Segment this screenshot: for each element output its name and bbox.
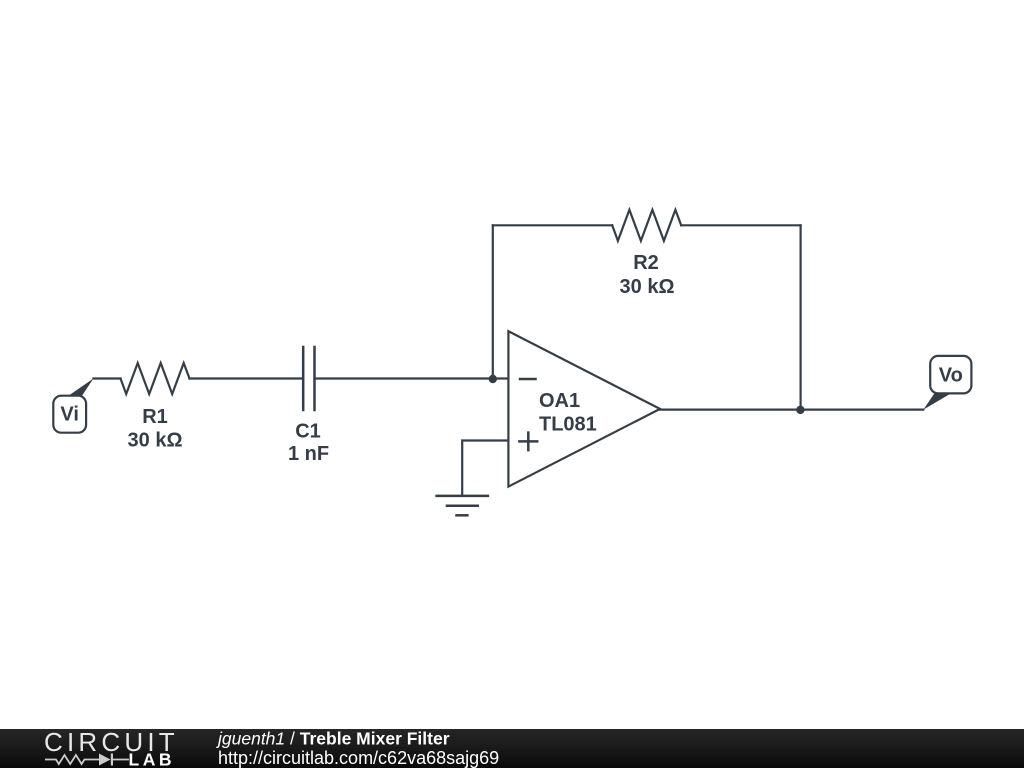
svg-text:TL081: TL081 bbox=[539, 413, 597, 435]
wire R1 to C1 bbox=[190, 377, 304, 379]
svg-text:1 nF: 1 nF bbox=[288, 443, 329, 465]
svg-text:LAB: LAB bbox=[129, 750, 175, 768]
op-amp plus sign bbox=[519, 433, 537, 451]
logo diode bbox=[99, 754, 111, 766]
svg-text:OA1: OA1 bbox=[539, 390, 580, 412]
wire non-inverting input bbox=[462, 441, 508, 496]
svg-text:R2: R2 bbox=[633, 252, 659, 274]
junction dot at inverting input bbox=[489, 375, 497, 383]
svg-text:R1: R1 bbox=[142, 406, 168, 428]
resistor R2 bbox=[612, 210, 681, 241]
label R2 value bbox=[620, 252, 675, 298]
wire feedback top right bbox=[681, 224, 800, 226]
wire input Vi to R1 bbox=[93, 377, 120, 379]
op-amp minus sign bbox=[520, 378, 536, 381]
svg-text:Vo: Vo bbox=[939, 365, 963, 387]
label C1 value bbox=[288, 420, 329, 465]
label R1 value bbox=[128, 406, 183, 452]
wire feedback vertical left bbox=[492, 225, 494, 378]
svg-text:30 kΩ: 30 kΩ bbox=[128, 429, 183, 451]
node Vo flag bbox=[923, 393, 951, 409]
ground bbox=[437, 496, 488, 515]
svg-text:http://circuitlab.com/c62va68s: http://circuitlab.com/c62va68sajg69 bbox=[218, 748, 499, 768]
node Vi flag bbox=[67, 379, 93, 397]
node Vi box bbox=[53, 396, 86, 433]
node Vo box bbox=[930, 356, 971, 394]
wire feedback vertical right bbox=[799, 225, 801, 409]
wire feedback top left bbox=[493, 224, 612, 226]
svg-text:jguenth1 / Treble Mixer Filter: jguenth1 / Treble Mixer Filter bbox=[216, 729, 450, 749]
capacitor C1 bbox=[303, 347, 314, 410]
resistor R1 bbox=[121, 363, 190, 394]
svg-text:30 kΩ: 30 kΩ bbox=[620, 276, 675, 298]
svg-text:C1: C1 bbox=[295, 420, 321, 442]
wire output bbox=[660, 409, 923, 411]
label OA1 TL081 bbox=[539, 390, 597, 435]
svg-text:Vi: Vi bbox=[60, 404, 79, 426]
op-amp OA1 triangle bbox=[508, 331, 660, 486]
logo resistor-diode symbol bbox=[45, 755, 129, 764]
junction dot at output bbox=[796, 406, 804, 414]
wire C1 to op-amp inverting input bbox=[315, 377, 509, 379]
